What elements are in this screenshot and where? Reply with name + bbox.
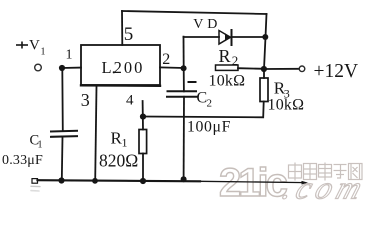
svg-text:1: 1 bbox=[38, 140, 43, 151]
rail right end tick bbox=[302, 182, 306, 184]
input terminal circle bbox=[35, 64, 42, 71]
scan smudge bottom left bbox=[31, 186, 40, 191]
wire: pin3 vertical bbox=[95, 86, 96, 180]
wire: R2 right to node bbox=[238, 67, 264, 70]
wire: pin4 vertical upper bbox=[142, 101, 144, 130]
svg-text:2: 2 bbox=[207, 98, 213, 110]
watermark 21ic bbox=[219, 161, 288, 205]
svg-text:21ic: 21ic bbox=[219, 161, 288, 201]
resistor R2 body bbox=[216, 65, 239, 70]
node: rail C2 bbox=[181, 176, 187, 182]
wire: pin5 vertical bbox=[121, 11, 123, 45]
svg-text:100μF: 100μF bbox=[187, 119, 231, 136]
svg-text:5: 5 bbox=[124, 24, 134, 45]
node: pin2/C2 bbox=[181, 65, 187, 71]
svg-text:1: 1 bbox=[122, 136, 128, 150]
rail left hollow square bbox=[32, 179, 38, 184]
wire: top rail pin5 to right column bbox=[122, 11, 267, 14]
svg-text:3: 3 bbox=[81, 90, 90, 110]
ground rail bbox=[38, 180, 201, 181]
svg-text:1: 1 bbox=[41, 47, 46, 58]
svg-text:0.33μF: 0.33μF bbox=[2, 153, 43, 168]
node: rail R1 bbox=[140, 178, 146, 184]
wire: C2 top stub bbox=[183, 68, 185, 91]
wire: R1 bottom to rail bbox=[142, 154, 144, 182]
wire: output node to terminal bbox=[264, 68, 299, 70]
label +V1 plus bbox=[16, 42, 28, 49]
node: diode cathode bbox=[262, 34, 268, 40]
wire: C1 bottom to ground rail bbox=[61, 137, 64, 180]
diode VD cathode bar bbox=[231, 30, 233, 45]
resistor R3 body bbox=[260, 78, 268, 102]
node: input bbox=[59, 65, 65, 71]
svg-text:L200: L200 bbox=[102, 58, 145, 77]
svg-text:4: 4 bbox=[126, 93, 134, 109]
capacitor C2 polarity minus bbox=[189, 81, 196, 83]
wire: C2 bottom to rail bbox=[183, 97, 185, 179]
svg-text:VD: VD bbox=[193, 17, 221, 32]
node: output bbox=[261, 66, 267, 72]
wire: R3 bottom to corner bbox=[143, 102, 264, 118]
watermark .com bbox=[278, 171, 365, 206]
svg-text:2: 2 bbox=[162, 51, 170, 68]
capacitor C2 plates bbox=[168, 90, 197, 92]
node: pin4 bbox=[140, 114, 146, 120]
wire: right vertical from top to R3 bbox=[264, 14, 267, 78]
wire: pin2 stub to node bbox=[160, 66, 184, 69]
resistor R1 body bbox=[139, 130, 147, 154]
wire: input vertical to C1 bbox=[61, 68, 64, 131]
svg-text:.com: .com bbox=[278, 171, 365, 201]
op-amp regulator U1 L200 box bbox=[81, 45, 160, 85]
wire: diode branch vertical bbox=[183, 37, 185, 68]
svg-text:10kΩ: 10kΩ bbox=[209, 73, 246, 90]
wire: diode cathode to node bbox=[233, 36, 266, 38]
node: rail C1 bbox=[58, 177, 64, 183]
svg-text:R: R bbox=[219, 46, 231, 66]
svg-text:1: 1 bbox=[66, 48, 73, 63]
output terminal circle bbox=[299, 66, 305, 72]
svg-text:V: V bbox=[29, 38, 40, 54]
wire: diode anode run bbox=[184, 36, 220, 38]
diode VD triangle bbox=[219, 31, 231, 45]
wire: pin1 stub bbox=[62, 67, 81, 69]
svg-text:2: 2 bbox=[232, 53, 239, 68]
node: rail pin3 bbox=[92, 178, 98, 184]
svg-text:10kΩ: 10kΩ bbox=[268, 97, 305, 114]
svg-text:820Ω: 820Ω bbox=[99, 151, 138, 171]
watermark chinese blocks bbox=[289, 163, 363, 181]
capacitor C1 plates bbox=[51, 130, 77, 133]
svg-text:+12V: +12V bbox=[314, 61, 359, 82]
